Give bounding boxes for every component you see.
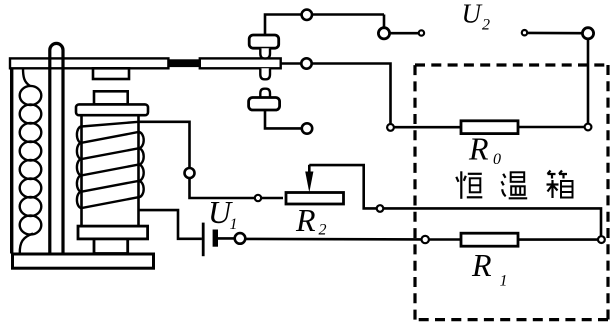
coil winding xyxy=(77,122,144,208)
wire: upper contact up and right xyxy=(265,15,384,36)
wire: R0 to right terminal xyxy=(518,126,585,129)
svg-text:R: R xyxy=(471,247,492,283)
resistor R1 xyxy=(461,233,518,246)
svg-text:0: 0 xyxy=(493,151,501,168)
battery U1 long plate xyxy=(202,223,205,257)
junction circle on wiper branch xyxy=(377,205,384,212)
small terminal right of U2 gap xyxy=(522,30,527,35)
upper contact nub xyxy=(260,48,270,58)
resistor R0 xyxy=(461,121,518,134)
wire: R1 to right terminal xyxy=(518,238,598,241)
lower contact block xyxy=(249,98,280,111)
switch circle left xyxy=(378,28,389,39)
wire: junction to R0 xyxy=(394,126,461,129)
R1 right terminal circle xyxy=(598,236,605,243)
wire: battery to terminal circle xyxy=(218,237,235,240)
wire: coil top exit to R2 branch xyxy=(139,122,284,198)
relay left wall xyxy=(10,68,13,254)
armature bar left (white) xyxy=(10,58,168,68)
terminal circle on coil-R2 wire xyxy=(185,168,195,178)
armature bar right (white) xyxy=(200,58,281,68)
return spring coils xyxy=(20,86,42,235)
svg-text:2: 2 xyxy=(319,222,327,239)
wire: armature terminal to R0 xyxy=(312,64,391,124)
coil body edges xyxy=(82,115,139,226)
core tab on armature xyxy=(93,68,129,79)
label xiang (箱) xyxy=(547,171,573,199)
svg-text:U: U xyxy=(462,0,483,29)
wire: terminal to R1 xyxy=(429,238,461,241)
wire: wiper to right branch xyxy=(309,165,601,236)
upper contact block xyxy=(249,35,279,48)
relay base plate xyxy=(13,254,154,268)
coil pedestal xyxy=(94,239,128,254)
armature contact nub xyxy=(260,68,270,79)
coil bottom flange xyxy=(78,226,148,239)
wire: coil bottom exit to battery xyxy=(139,210,202,239)
wire: battery to R1 xyxy=(245,238,421,241)
wire: armature to terminal xyxy=(281,62,302,65)
svg-text:1: 1 xyxy=(500,273,508,290)
wire: terminal to right corner circle xyxy=(527,32,582,35)
svg-text:R: R xyxy=(468,131,489,167)
thermostat dashed box xyxy=(415,65,608,320)
small terminal left of U2 gap xyxy=(419,30,424,35)
pivot staple xyxy=(50,43,63,253)
corner circle top right xyxy=(582,28,593,39)
switch lead left xyxy=(390,32,419,35)
svg-text:1: 1 xyxy=(230,216,238,233)
return spring hook xyxy=(23,68,30,86)
junction circle left of R2 xyxy=(255,195,261,201)
wire: top wire corner down to switch circle xyxy=(383,15,386,28)
label heng (恒) xyxy=(456,171,482,199)
battery output terminal circle xyxy=(235,233,246,244)
wire: lower contact down to terminal xyxy=(265,110,302,128)
label wen (温) xyxy=(502,172,528,198)
R0 right terminal circle xyxy=(585,124,592,131)
coil top flange xyxy=(76,104,148,115)
wire: right side down to R0 xyxy=(587,39,590,124)
R1 left terminal circle xyxy=(422,236,429,243)
svg-text:R: R xyxy=(295,202,316,238)
terminal circle on top wire xyxy=(302,10,312,20)
armature terminal circle xyxy=(301,58,311,68)
return spring bottom tail xyxy=(20,234,33,254)
junction circle before R0 xyxy=(387,124,394,131)
core pole piece xyxy=(94,91,128,104)
rheostat R2 wiper arrow xyxy=(308,165,311,174)
lower contact terminal circle xyxy=(302,123,312,133)
rheostat R2 body xyxy=(286,193,344,205)
svg-text:2: 2 xyxy=(482,16,490,33)
battery U1 short plate xyxy=(213,230,218,247)
lower contact nub xyxy=(260,89,270,98)
armature black segment xyxy=(168,59,200,67)
